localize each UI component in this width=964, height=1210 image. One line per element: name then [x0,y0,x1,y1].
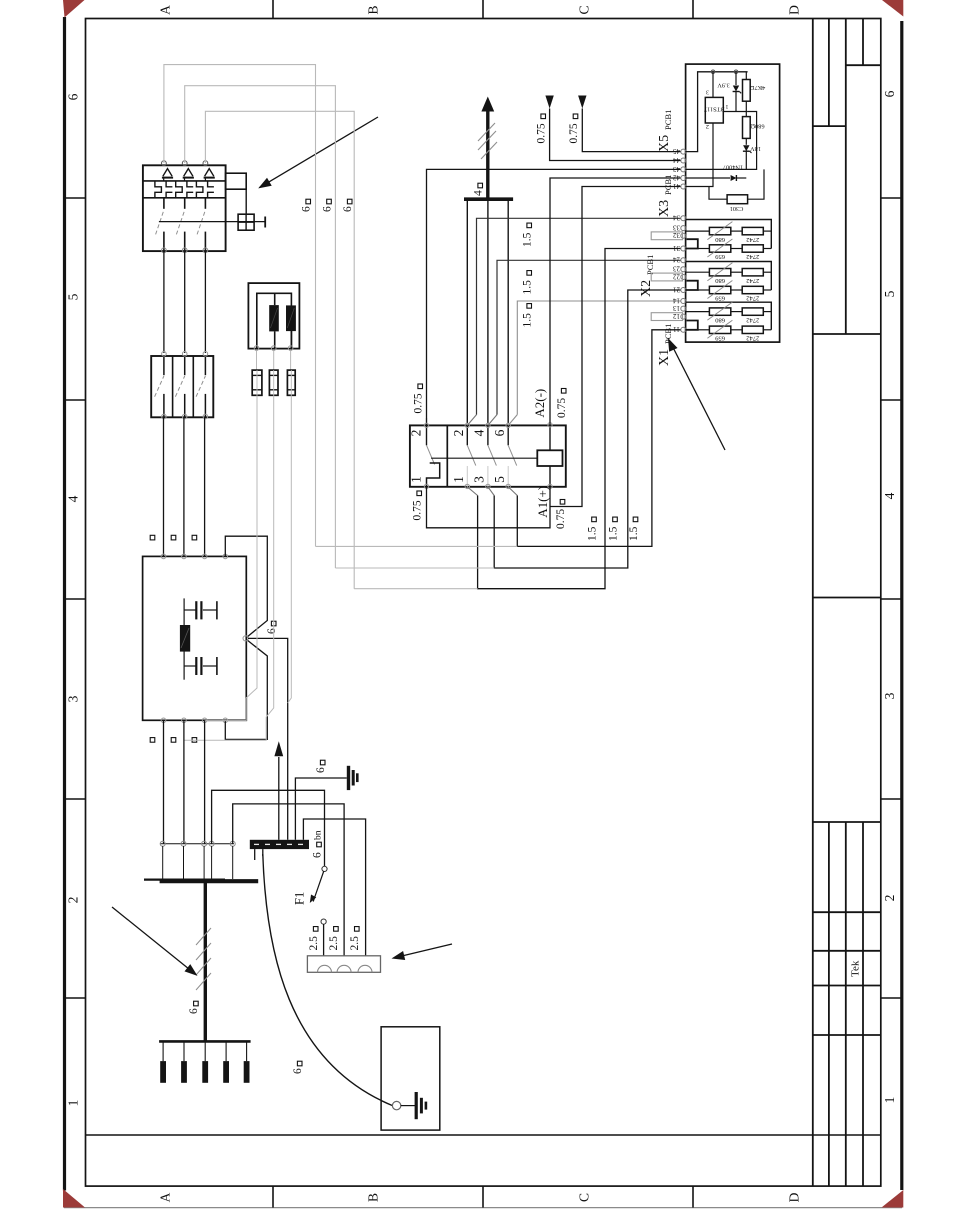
svg-text:6: 6 [188,1008,200,1014]
X5:41 internal wire to BTS pin2 [686,123,713,187]
small square wire marks above filter [150,535,197,540]
channel X3 top value labels [714,236,759,243]
channel X1 pin stub [686,321,698,330]
svg-text:680Ω: 680Ω [750,122,764,129]
labels 0.75 around K1 [412,384,569,529]
svg-text:2: 2 [706,123,709,129]
svg-text:6: 6 [321,206,333,212]
fuse sense wire 2 (to phase L2 below filter) [184,395,274,740]
svg-text:1.5: 1.5 [522,280,534,295]
fuse FU1 [252,370,262,395]
net contact 1: down, grey to L3 bend, black to X3:31 [354,249,681,589]
node wiring BTS/zener/4K7 [723,101,747,116]
sheet inner border [86,19,882,1187]
svg-text:4: 4 [66,495,81,502]
PE trunk down from busbar [204,883,207,1041]
svg-text:B: B [366,5,381,14]
svg-text:PCB1: PCB1 [663,175,673,195]
wire L2 supply bend (grey) [185,86,336,568]
channel X3 varistor R-top [686,222,733,240]
svg-text:34: 34 [673,214,681,222]
channel X1 top value labels [714,316,759,323]
long pointer arrow to PE trunk [112,907,198,976]
pointer arrow to breaker [258,117,378,188]
svg-text:D: D [787,5,802,15]
wire aux contact 2 to X5:43 [427,169,682,418]
border row letters bottom [158,1192,802,1202]
svg-text:45: 45 [673,147,681,155]
svg-text:5: 5 [882,290,897,297]
channel X1 bottom value labels [714,335,759,342]
svg-text:2742: 2742 [746,316,759,323]
svg-text:6: 6 [492,429,507,436]
wire gauge label 4mm at PE [473,183,485,196]
svg-text:33: 33 [673,224,681,232]
channel X2 pin stub [686,281,698,290]
svg-text:18V: 18V [750,145,761,152]
svg-text:1: 1 [882,1097,897,1104]
svg-text:A1(+): A1(+) [535,486,550,518]
supply drops from collector bar to relay contacts [467,201,508,423]
svg-text:659: 659 [714,335,725,342]
border column separator ticks (left strip) [65,198,86,998]
PE hatch marks [478,123,497,159]
svg-text:680: 680 [714,277,725,284]
channel X1 resistor top [731,308,772,315]
svg-text:0.75: 0.75 [568,123,580,143]
connector X1 pins [673,296,686,333]
wire gauge label 6mm at filter node [266,621,278,634]
PE distribution bar [159,1040,251,1043]
surge block cartridge 1 (black) [269,305,279,331]
svg-text:41: 41 [673,182,681,190]
destination arrow wire to X5:44 [545,96,681,161]
svg-text:X5: X5 [657,135,672,152]
PCB supply rail from X5:45 [686,70,748,152]
title block and revision table [813,19,881,1187]
svg-text:bn: bn [313,830,323,840]
wires contactor to filter [164,417,205,556]
svg-text:C301: C301 [730,205,744,212]
K1 coil [537,423,562,489]
svg-text:23: 23 [673,265,681,273]
fuse switch F1 [310,866,327,955]
wire gauge label 6mm at earth wire [315,760,327,773]
svg-text:2742: 2742 [746,335,759,342]
circuit breaker Q1 (3-pole motor protection switch) [143,165,226,251]
diode 1N4007 on X5:42 wire [686,164,747,181]
svg-text:21: 21 [673,285,681,293]
K1 main contact labels [451,429,507,483]
svg-text:1: 1 [726,103,729,109]
breaker operating mechanism linkage [159,173,265,221]
labels 1.5 at sense wires [522,223,534,327]
channel X2 resistor top [731,269,772,276]
svg-text:B: B [366,1193,381,1202]
svg-text:A: A [158,5,173,15]
main earth symbol [401,1092,426,1119]
filter internal inductor (black bar) [180,625,190,652]
svg-text:PCB1: PCB1 [663,324,673,344]
title text Tek [850,960,862,977]
connector X2 pins [673,256,686,294]
svg-text:3.9V: 3.9V [717,81,730,88]
svg-text:C: C [577,5,592,14]
destination arrow wire to X5:45 [578,96,681,152]
wire N-bar to side earth [295,778,346,840]
phase wires filter to junction line [164,720,205,844]
contactor K1 outline [410,425,566,486]
pointer arrow to X1 label [668,338,725,450]
busbar to terminal 2 wire [233,804,344,956]
channel X2 varistor R-top [686,263,733,281]
wire gauge labels 6mm for supply wires [301,199,355,212]
svg-text:BTS117: BTS117 [704,106,725,113]
connector X3 pins [673,214,686,252]
wire filter node to N-bar [248,638,288,839]
channel X3 resistor bottom [731,245,772,252]
PE conductor with up arrow (top center) [481,97,494,200]
K1 coil terminal labels [532,389,550,518]
K1 aux contact 1-2 [424,418,439,489]
svg-text:2: 2 [882,895,897,902]
net contact 3: down, grey to L2 bend, black to X2:21 [335,290,681,568]
net contact 5: down, grey to L1 bend, black to X1:11 [316,330,682,547]
filter PE node [243,636,248,641]
svg-text:2: 2 [451,430,466,437]
svg-text:5: 5 [492,476,507,483]
voltage regulator BTS117 [704,72,729,129]
svg-text:2.5: 2.5 [349,936,361,951]
channel X1 jumper tag [651,313,682,321]
svg-text:1: 1 [409,476,424,483]
capacitor C301 [709,169,764,212]
zener diode 18V [743,138,761,169]
channel X2 varistor R-bottom [698,281,733,299]
border row letters top [158,5,802,15]
PE trunk earth hatching [196,928,211,990]
breaker manual operator (crossed box) [238,214,265,230]
svg-text:0.75: 0.75 [536,123,548,143]
terminal strip X-row [307,956,380,973]
svg-text:680: 680 [714,316,725,323]
surge block cartridge 2 (black) [286,305,296,331]
svg-text:1N4007: 1N4007 [723,164,743,171]
N-bar to terminal 3 wire [303,819,365,956]
svg-text:6: 6 [266,628,278,634]
K1 main contact 1-2 [465,423,476,488]
svg-text:2742: 2742 [746,236,759,243]
channel X1 varistor R-bottom [698,320,733,338]
X5:43 internal wire [686,112,757,170]
busbar to F1 wire [212,790,325,866]
svg-text:1.5: 1.5 [586,526,598,541]
channel X3 varistor R-bottom [698,239,733,257]
svg-text:1.5: 1.5 [628,526,640,541]
svg-text:2742: 2742 [746,253,759,260]
channel X3 bottom value labels [714,253,759,260]
svg-text:1.5: 1.5 [522,232,534,247]
channel X2 top value labels [714,277,759,284]
wire X5:41 down to A1 net [550,187,681,507]
surge block terminals [254,346,293,351]
wires surge block to fuses (grey) [257,350,291,370]
svg-text:6: 6 [301,206,313,212]
svg-text:3: 3 [706,88,709,94]
pointer arrow to terminal strip [392,944,453,960]
svg-text:4K7Ω: 4K7Ω [749,84,765,91]
svg-text:4: 4 [882,492,897,499]
border row separator ticks (top strip) [273,0,693,19]
svg-text:13: 13 [673,304,681,312]
breaker Q1 terminals [162,161,208,253]
svg-text:6: 6 [342,206,354,212]
channel X2 bottom value labels [714,295,759,302]
N-bar to main earth curved wire [255,849,393,1106]
svg-text:14: 14 [673,296,681,304]
arrow stub feeding N-bar [274,741,283,840]
side earth symbol [349,766,358,790]
wire label 6mm bn at F1 feed [311,830,323,858]
wire coil A1 and aux 1 join [427,487,551,528]
channel X2 jumper tag [651,273,682,281]
wire coil A2 to X5:42 [550,178,681,425]
svg-text:A: A [158,1192,173,1202]
PE lugs (black terminals) [160,1042,249,1083]
svg-text:0.75: 0.75 [412,500,424,520]
labels 0.75 at destination arrows [536,114,580,144]
svg-text:11: 11 [673,325,680,333]
svg-text:6: 6 [315,767,327,773]
svg-text:6: 6 [292,1068,304,1074]
border row separator ticks (bottom strip) [273,1186,693,1208]
resistor 4K7 [743,72,766,101]
K1 main contact 5-6 [506,423,517,488]
wire L3 supply bend (grey) [205,111,354,588]
small square wire marks below filter [150,738,197,743]
filter internal capacitor C2 [184,657,217,675]
collector bar (thick) [464,197,513,201]
channel X1 bracket wiring [686,302,772,330]
svg-text:0.75: 0.75 [556,398,568,418]
svg-text:659: 659 [714,295,725,302]
svg-text:2: 2 [66,897,81,904]
svg-text:C: C [577,1193,592,1202]
channel X2 resistor bottom [731,286,772,293]
zener diode 3.9V [717,72,741,112]
channel X2 bracket wiring [686,262,772,291]
svg-text:3: 3 [472,476,487,483]
svg-text:1: 1 [451,476,466,483]
filter PE loop bottom terminal to node [225,640,267,740]
fuse FU3 [287,370,295,395]
contactor 3-pole switch [151,356,213,417]
wires breaker to contactor [164,251,206,353]
filter PE loop top terminal to node [225,536,267,637]
resistor 680R [743,117,765,139]
K1 mechanical linkage line [431,457,537,459]
svg-text:X2: X2 [639,280,654,297]
filter internal capacitor C1 [184,598,217,679]
svg-text:3: 3 [882,692,897,699]
svg-text:5: 5 [66,293,81,300]
K1 main contact 3-4 [486,423,497,488]
wire L1 supply bend (grey) [164,65,316,547]
svg-text:2742: 2742 [746,277,759,284]
channel X1 resistor bottom [731,326,772,333]
svg-text:4: 4 [473,190,485,196]
N distribution bar (black) [250,840,309,849]
svg-text:F1: F1 [293,892,307,905]
svg-text:2: 2 [409,430,424,437]
sense wire contact 4 to X2:24 [488,260,681,425]
svg-text:3: 3 [66,695,81,702]
svg-text:6: 6 [66,93,81,100]
main earth box [381,1027,440,1130]
svg-text:6: 6 [882,90,897,97]
sense wire contact 2 to X3:34 [467,218,681,425]
svg-text:31: 31 [673,244,681,252]
label F1 [293,892,307,905]
PCB1 board outline [686,64,780,342]
svg-text:X3: X3 [657,200,672,217]
svg-text:4: 4 [472,429,487,436]
connector X5 pins [673,147,686,190]
svg-text:Tek: Tek [850,960,862,977]
PE busbar (thick) [144,880,258,882]
channel X3 bracket wiring [686,220,772,249]
border column numbers right [882,90,897,1103]
svg-text:PCB1: PCB1 [663,110,673,130]
surge protection block housing [248,283,299,349]
labels 1.5 at bottom nets [586,517,640,541]
svg-text:1: 1 [66,1100,81,1107]
svg-text:2.5: 2.5 [308,936,320,951]
K1 aux contact labels [409,430,424,483]
main earth point circle [392,1101,400,1109]
svg-text:0.75: 0.75 [413,393,425,413]
svg-text:659: 659 [714,253,725,260]
wire gauge label 6mm at curve [292,1061,304,1074]
connector X2 label [639,255,655,297]
svg-text:24: 24 [673,256,681,264]
svg-text:43: 43 [673,165,681,173]
svg-text:PCB1: PCB1 [645,255,655,275]
svg-text:42: 42 [673,173,681,181]
svg-text:6: 6 [311,852,323,858]
svg-text:D: D [787,1192,802,1202]
connector X3 label [657,175,673,217]
channel X1 varistor R-top [686,302,733,320]
junction line above PE busbar [160,841,235,879]
svg-text:A2(-): A2(-) [532,389,547,418]
fuse sense wire 1 (to phase L3 below filter) [205,395,257,720]
border column separator ticks (right strip) [881,198,902,998]
EMC filter box [143,556,247,720]
sense wire contact 6 to X1:14 [508,301,681,425]
fuse sense wire 3 (to N-bar) [288,395,292,703]
border column numbers left [66,93,81,1106]
filter terminals [161,554,227,722]
fuse FU2 [269,370,278,395]
svg-text:1.5: 1.5 [522,313,534,328]
terminal wire labels 2.5mm [308,927,361,951]
connector X1 label [657,324,673,366]
channel X3 resistor top [731,227,772,234]
svg-text:680: 680 [714,236,725,243]
channel X3 pin stub [686,239,698,248]
svg-text:2742: 2742 [746,295,759,302]
svg-text:2.5: 2.5 [328,936,340,951]
wire gauge label 6mm at PE trunk [188,1001,200,1014]
channel X3 jumper tag [651,232,682,240]
svg-text:44: 44 [673,156,681,164]
contactor terminals [162,352,208,419]
svg-text:1.5: 1.5 [607,526,619,541]
connector X5 label [657,110,673,152]
svg-text:0.75: 0.75 [555,509,567,529]
